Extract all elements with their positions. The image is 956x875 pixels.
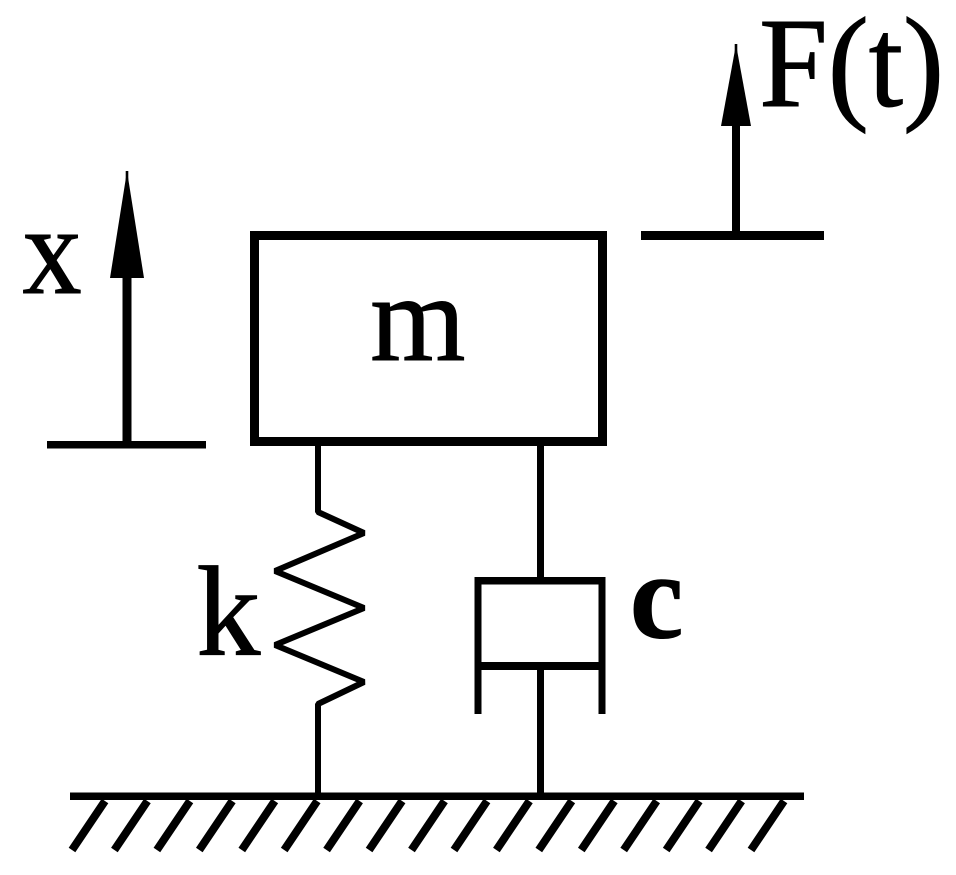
svg-text:k: k xyxy=(197,540,261,682)
svg-text:c: c xyxy=(630,529,683,664)
svg-text:x: x xyxy=(23,182,82,321)
svg-text:F(t): F(t) xyxy=(759,0,944,134)
svg-text:m: m xyxy=(370,250,465,388)
